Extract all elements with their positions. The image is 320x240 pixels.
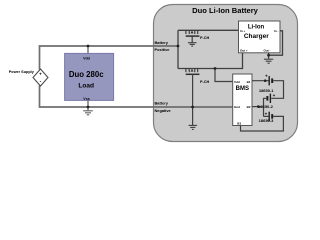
svg-text:Vdd: Vdd — [234, 80, 240, 84]
svg-text:B1: B1 — [247, 80, 251, 84]
svg-text:Charger: Charger — [244, 33, 269, 40]
wire charger In- loop to Out- node — [269, 31, 283, 55]
svg-text:Li-Ion: Li-Ion — [248, 25, 265, 31]
wire cell3 to B3 — [241, 116, 284, 131]
svg-text:18650-3: 18650-3 — [259, 118, 274, 123]
wire mid rail (Q2 row) — [178, 68, 243, 70]
svg-text:BMS: BMS — [236, 86, 249, 92]
svg-text:Gnd: Gnd — [234, 105, 240, 109]
svg-text:In +: In + — [240, 29, 245, 33]
battery negative terminal labels — [155, 100, 172, 112]
svg-text:-: - — [40, 79, 42, 85]
wire B2 to junction — [252, 106, 264, 108]
BMS block — [233, 74, 252, 126]
Li-Ion charger block — [239, 21, 281, 53]
svg-text:+: + — [265, 111, 268, 116]
svg-text:+: + — [39, 71, 42, 76]
wire BMS Vdd branch — [215, 69, 233, 82]
power supply source — [33, 69, 48, 86]
wire top rail to charger In+ — [178, 29, 239, 31]
junction node Out- — [267, 54, 270, 57]
svg-text:B2: B2 — [247, 105, 251, 109]
transistor Q1 P-CH — [186, 30, 200, 42]
junction node battery positive T — [177, 45, 180, 48]
svg-text:+: + — [273, 93, 276, 98]
wire charger Out- stub — [268, 53, 270, 59]
junction node Q2 gate to negative rail — [191, 106, 194, 109]
svg-text:Out +: Out + — [240, 48, 248, 52]
wire charger Out+ down to mid rail — [242, 53, 244, 69]
svg-text:Battery: Battery — [155, 40, 169, 45]
junction node at load Vdd — [87, 45, 90, 48]
svg-text:+: + — [265, 74, 268, 79]
wire bottom rail outer (power supply to battery negative) — [40, 86, 234, 108]
battery cell BT2 (18650-2) — [267, 93, 275, 103]
wire B1 to cell stack top — [252, 80, 269, 82]
svg-text:P-CH: P-CH — [200, 36, 210, 40]
junction node on B2 wire — [257, 105, 260, 108]
svg-text:Positive: Positive — [155, 47, 171, 52]
svg-text:18650-1: 18650-1 — [259, 88, 274, 93]
svg-text:Power Supply: Power Supply — [9, 70, 35, 74]
svg-text:Out -: Out - — [264, 48, 271, 52]
wire load Vdd stub — [87, 46, 89, 53]
svg-text:Vss: Vss — [83, 97, 89, 101]
ground under load — [83, 111, 93, 115]
svg-text:B3: B3 — [237, 122, 241, 126]
battery cell BT3 (18650-3) — [265, 111, 273, 121]
svg-text:Load: Load — [78, 82, 94, 89]
battery positive terminal labels — [155, 40, 171, 52]
svg-text:P-CH: P-CH — [200, 80, 210, 84]
svg-text:In -: In - — [274, 29, 279, 33]
wire top rail outer (power supply to battery positive) — [40, 46, 179, 70]
svg-text:Battery: Battery — [155, 100, 169, 105]
wire load Vss stub — [87, 100, 89, 110]
svg-text:Duo 280c: Duo 280c — [69, 70, 104, 79]
transistor Q2 P-CH — [186, 69, 200, 126]
wire left vertical bus inside pack — [177, 30, 179, 68]
ground at Q1 gate — [188, 43, 197, 46]
battery cell BT1 (18650-1) — [265, 74, 272, 86]
ground at charger Out- — [264, 59, 273, 63]
wire cell2 to B2/cell3 junction — [264, 98, 267, 116]
ground at battery negative — [189, 125, 198, 129]
junction node mid rail to Vdd branch — [214, 67, 217, 70]
battery pack enclosure box — [154, 5, 298, 142]
junction node at load Vss — [87, 106, 90, 109]
svg-text:Negative: Negative — [155, 108, 172, 113]
svg-text:Duo Li-Ion Battery: Duo Li-Ion Battery — [192, 6, 259, 15]
junction node on B1 wire — [264, 79, 267, 82]
wire cell3 left to junction column — [264, 115, 270, 117]
load block Duo 280c — [65, 53, 114, 101]
svg-text:Vdd: Vdd — [83, 56, 90, 60]
wire cell1 to cell2 — [271, 81, 283, 99]
